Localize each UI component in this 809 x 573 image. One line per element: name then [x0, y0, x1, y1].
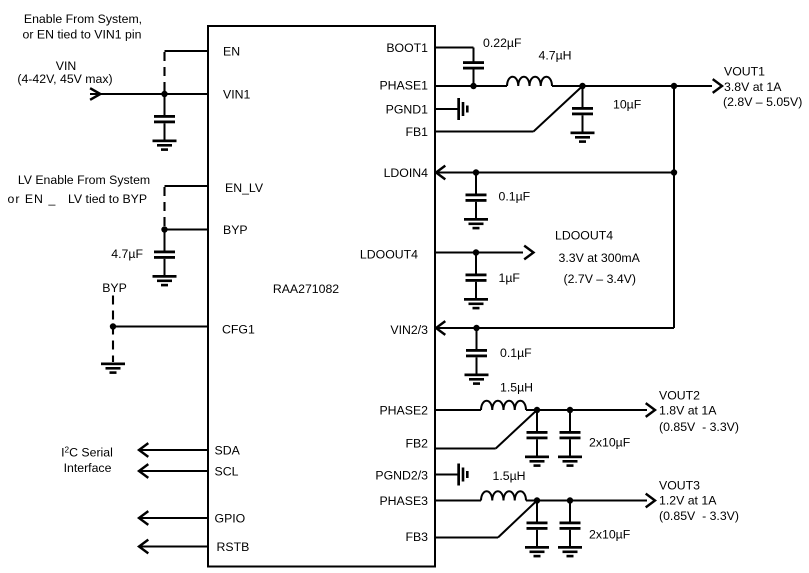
svg-text:4.7µF: 4.7µF — [111, 247, 143, 261]
svg-text:0.1µF: 0.1µF — [499, 190, 531, 204]
svg-text:or EN: or EN — [8, 192, 44, 206]
svg-text:Enable From System,: Enable From System, — [24, 12, 142, 26]
svg-text:LDOOUT4: LDOOUT4 — [555, 229, 613, 243]
svg-text:3.3V at 300mA: 3.3V at 300mA — [559, 251, 641, 265]
svg-text:FB3: FB3 — [405, 530, 428, 544]
svg-text:1µF: 1µF — [499, 271, 521, 285]
svg-text:LDOOUT4: LDOOUT4 — [360, 248, 418, 262]
svg-text:(4-42V, 45V max): (4-42V, 45V max) — [17, 72, 112, 86]
svg-text:2x10µF: 2x10µF — [589, 528, 631, 542]
svg-text:EN_LV: EN_LV — [225, 181, 264, 195]
svg-text:LV tied to BYP: LV tied to BYP — [68, 192, 147, 206]
svg-text:BOOT1: BOOT1 — [386, 41, 428, 55]
svg-text:0.1µF: 0.1µF — [500, 346, 532, 360]
svg-text:(0.85V - 3.3V): (0.85V - 3.3V) — [659, 509, 739, 523]
svg-text:PGND2/3: PGND2/3 — [375, 469, 428, 483]
svg-text:BYP: BYP — [102, 281, 127, 295]
svg-text:0.22µF: 0.22µF — [483, 36, 522, 50]
svg-text:LDOIN4: LDOIN4 — [384, 166, 429, 180]
svg-text:I2C Serial: I2C Serial — [61, 446, 113, 460]
svg-text:CFG1: CFG1 — [222, 323, 255, 337]
svg-text:4.7µH: 4.7µH — [539, 49, 572, 63]
svg-text:BYP: BYP — [223, 223, 248, 237]
svg-text:(2.7V – 3.4V): (2.7V – 3.4V) — [564, 272, 636, 286]
svg-text:1.5µH: 1.5µH — [493, 469, 526, 483]
svg-text:VIN: VIN — [56, 59, 77, 73]
svg-text:1.2V at 1A: 1.2V at 1A — [659, 494, 717, 508]
svg-text:GPIO: GPIO — [215, 512, 246, 526]
svg-text:RAA271082: RAA271082 — [273, 282, 339, 296]
svg-text:PHASE3: PHASE3 — [379, 494, 428, 508]
svg-text:2x10µF: 2x10µF — [589, 436, 631, 450]
svg-text:PHASE2: PHASE2 — [379, 404, 428, 418]
svg-text:PHASE1: PHASE1 — [379, 79, 428, 93]
svg-text:VOUT2: VOUT2 — [659, 389, 700, 403]
svg-text:VOUT3: VOUT3 — [659, 479, 700, 493]
svg-text:Interface: Interface — [64, 461, 112, 475]
svg-text:FB2: FB2 — [405, 437, 428, 451]
svg-text:FB1: FB1 — [405, 125, 428, 139]
svg-text:_: _ — [48, 192, 56, 206]
svg-text:(2.8V – 5.05V): (2.8V – 5.05V) — [723, 95, 802, 109]
svg-text:RSTB: RSTB — [217, 540, 250, 554]
svg-text:SCL: SCL — [215, 465, 239, 479]
svg-text:VIN1: VIN1 — [223, 88, 250, 102]
svg-text:(0.85V - 3.3V): (0.85V - 3.3V) — [659, 420, 739, 434]
svg-text:3.8V at 1A: 3.8V at 1A — [724, 80, 782, 94]
svg-text:1.8V at 1A: 1.8V at 1A — [659, 404, 717, 418]
svg-text:10µF: 10µF — [613, 98, 642, 112]
svg-text:VIN2/3: VIN2/3 — [390, 323, 428, 337]
svg-text:LV Enable From System: LV Enable From System — [18, 173, 150, 187]
svg-text:EN: EN — [223, 45, 240, 59]
svg-text:SDA: SDA — [215, 444, 241, 458]
svg-text:1.5µH: 1.5µH — [500, 381, 533, 395]
svg-text:PGND1: PGND1 — [386, 103, 429, 117]
svg-text:VOUT1: VOUT1 — [724, 65, 765, 79]
svg-text:or EN tied to VIN1 pin: or EN tied to VIN1 pin — [23, 28, 142, 42]
